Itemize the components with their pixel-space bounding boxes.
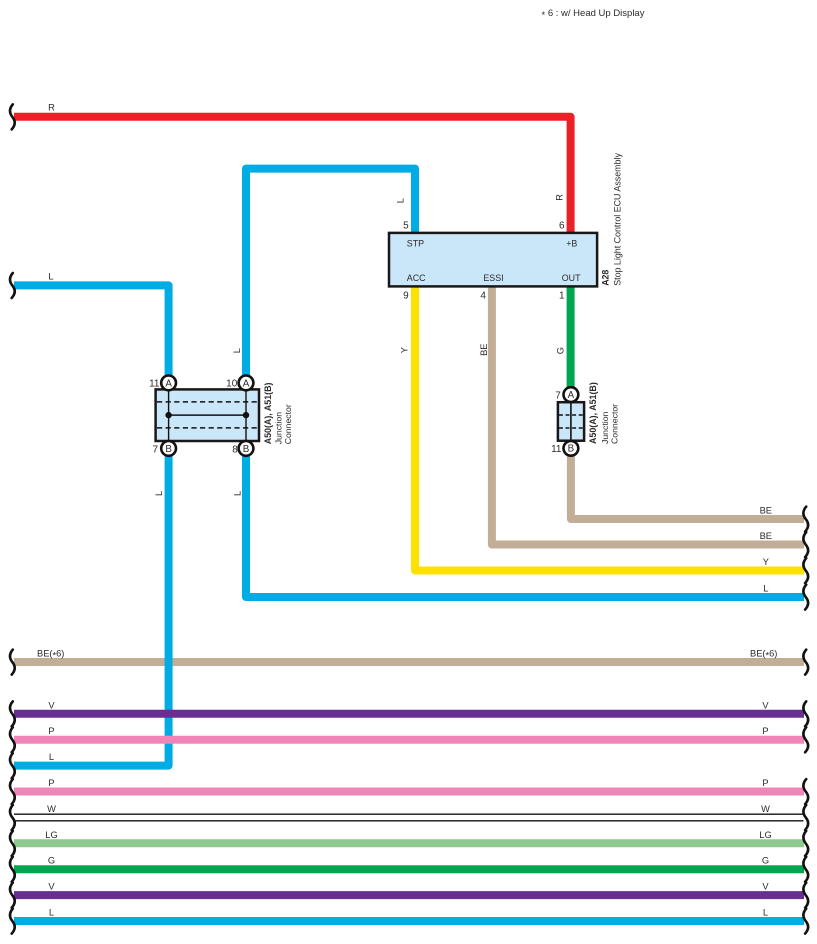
svg-text:A50(A), A51(B): A50(A), A51(B) bbox=[263, 382, 273, 444]
svg-text:W: W bbox=[761, 804, 770, 814]
break symbol left L bottom bbox=[10, 753, 15, 778]
svg-text:P: P bbox=[48, 778, 54, 788]
wire Y (yellow, ECU pin 9 down right to right edge) bbox=[415, 286, 804, 571]
svg-text:Connector: Connector bbox=[609, 404, 619, 444]
svg-text:BE: BE bbox=[760, 531, 772, 541]
svg-text:11: 11 bbox=[149, 379, 160, 390]
svg-text:11: 11 bbox=[551, 444, 562, 455]
svg-text:G: G bbox=[556, 347, 566, 354]
svg-text:L: L bbox=[763, 584, 768, 594]
junction 1 pin circle A (10) bbox=[239, 376, 254, 391]
wire L (blue, junction pin 8B down and right to right edge) bbox=[246, 456, 804, 597]
wire P (pink, full width) bbox=[14, 736, 804, 744]
junction connector 1 A50(A),A51(B) box bbox=[156, 389, 259, 441]
break symbol left of wire R bbox=[10, 104, 15, 129]
svg-text:L: L bbox=[49, 752, 54, 762]
svg-text:Connector: Connector bbox=[283, 404, 293, 444]
svg-text:6: 6 bbox=[559, 221, 565, 232]
svg-text:L: L bbox=[232, 348, 242, 353]
svg-text:G: G bbox=[48, 856, 55, 866]
wire P (pink, second full width) bbox=[14, 788, 804, 796]
junction 1 dashed internal rows bbox=[157, 402, 258, 428]
wire R (red, left edge to ECU pin 6) bbox=[14, 117, 571, 234]
wire L (blue, junction pin 7B down and left to left edge) bbox=[14, 456, 169, 766]
break symbol right Y bbox=[803, 558, 808, 583]
svg-text:L: L bbox=[154, 491, 164, 496]
svg-text:10: 10 bbox=[226, 379, 238, 390]
wire V (purple, full width) bbox=[14, 710, 804, 718]
svg-text:L: L bbox=[49, 908, 54, 918]
break symbol left BE(*6) bbox=[10, 650, 15, 675]
svg-text:1: 1 bbox=[559, 291, 565, 302]
svg-text:LG: LG bbox=[45, 830, 57, 840]
svg-text:A: A bbox=[165, 378, 172, 389]
svg-text:+B: +B bbox=[566, 239, 577, 249]
svg-text:ACC: ACC bbox=[407, 273, 426, 283]
svg-text:L: L bbox=[395, 198, 405, 203]
svg-text:P: P bbox=[762, 778, 768, 788]
svg-text:L: L bbox=[48, 271, 53, 281]
junction 1 pin circle B (8) bbox=[239, 441, 254, 456]
svg-text:Junction: Junction bbox=[274, 412, 284, 445]
svg-text:G: G bbox=[762, 856, 769, 866]
break symbol right BE(*6) bbox=[803, 650, 808, 675]
break symbol right BE2 bbox=[803, 532, 808, 557]
break symbols wire G bbox=[10, 857, 15, 882]
junction 1 pin circle A (11) bbox=[161, 376, 176, 391]
break symbols wire L bottom full bbox=[10, 909, 15, 934]
svg-text:B: B bbox=[165, 444, 172, 455]
svg-text:8: 8 bbox=[232, 444, 238, 455]
junction 1 pin circle B (7) bbox=[161, 441, 176, 456]
svg-text:OUT: OUT bbox=[562, 273, 581, 283]
svg-text:Y: Y bbox=[763, 557, 769, 567]
junction 2 center pin line bbox=[570, 402, 572, 441]
junction connector 2 A50(A),A51(B) box bbox=[558, 402, 584, 441]
svg-text:LG: LG bbox=[759, 830, 771, 840]
break symbols wire P2 bbox=[10, 779, 15, 804]
svg-text:A28: A28 bbox=[600, 270, 610, 286]
svg-text:A: A bbox=[243, 378, 250, 389]
svg-text:V: V bbox=[48, 700, 55, 710]
svg-text:STP: STP bbox=[407, 239, 424, 249]
svg-text:Y: Y bbox=[399, 347, 409, 353]
svg-text:7: 7 bbox=[152, 444, 158, 455]
break symbols wire W bbox=[10, 805, 15, 830]
break symbols wire P bbox=[10, 727, 15, 752]
break symbols wire LG bbox=[10, 831, 15, 856]
svg-text:BE: BE bbox=[479, 343, 489, 355]
svg-text:L: L bbox=[232, 491, 242, 496]
junction 2 pin circle A (7) bbox=[564, 387, 579, 402]
svg-text:4: 4 bbox=[480, 291, 486, 302]
wire G (green, ECU pin 1 OUT down to junction 2 pin 7A) bbox=[567, 286, 575, 388]
svg-text:Junction: Junction bbox=[600, 411, 610, 444]
svg-text:L: L bbox=[763, 908, 768, 918]
svg-text:V: V bbox=[48, 882, 55, 892]
ECU A28 box bbox=[389, 233, 597, 287]
junction 2 dashed internal rows bbox=[559, 415, 583, 428]
break symbols wire V bbox=[10, 701, 15, 726]
break symbol right BE1 bbox=[803, 507, 808, 532]
wire L (blue, bottom full width) bbox=[14, 917, 804, 925]
junction 2 pin circle B (11) bbox=[564, 441, 579, 456]
svg-text:P: P bbox=[48, 726, 54, 736]
wire W (white with black outline, full width) bbox=[14, 814, 804, 821]
wire BE (beige, junction 2 pin 11B down right to right edge) bbox=[571, 456, 804, 519]
svg-text:B: B bbox=[243, 444, 250, 455]
svg-text:* 6 : w/ Head Up Display: * 6 : w/ Head Up Display bbox=[542, 8, 645, 21]
svg-text:P: P bbox=[762, 726, 768, 736]
wire L (blue, left edge to junction pin 11A) bbox=[14, 285, 169, 375]
svg-text:B: B bbox=[568, 444, 575, 455]
wire BE (beige, ECU pin 4 ESSI down right to right edge) bbox=[492, 286, 804, 545]
svg-text:ESSI: ESSI bbox=[483, 273, 503, 283]
wire V (purple, second full width) bbox=[14, 891, 804, 899]
svg-text:W: W bbox=[47, 804, 56, 814]
break symbol right L bbox=[803, 585, 808, 610]
wire L (blue, ECU pin 5 up/left/down to junction pin 10A) bbox=[246, 169, 415, 376]
svg-text:BE: BE bbox=[760, 506, 772, 516]
svg-text:R: R bbox=[555, 194, 565, 201]
break symbol left of wire L bbox=[10, 273, 15, 298]
wire BE(*6) (beige, full width bottom) bbox=[14, 658, 804, 666]
svg-text:5: 5 bbox=[403, 221, 409, 232]
svg-text:V: V bbox=[762, 700, 769, 710]
wire G (green, full width) bbox=[14, 865, 804, 873]
svg-text:9: 9 bbox=[403, 291, 409, 302]
junction 1 internal bus link with node dots bbox=[169, 414, 246, 416]
svg-text:A: A bbox=[568, 390, 575, 401]
svg-text:R: R bbox=[48, 103, 55, 113]
break symbols wire V2 bbox=[10, 883, 15, 908]
junction 1 pass-through pin lines bbox=[169, 389, 246, 441]
wire LG (light green, full width) bbox=[14, 839, 804, 847]
svg-text:7: 7 bbox=[555, 390, 561, 401]
svg-text:V: V bbox=[762, 882, 769, 892]
svg-text:Stop Light Control ECU Assembl: Stop Light Control ECU Assembly bbox=[613, 153, 623, 286]
svg-text:A50(A), A51(B): A50(A), A51(B) bbox=[588, 382, 598, 444]
